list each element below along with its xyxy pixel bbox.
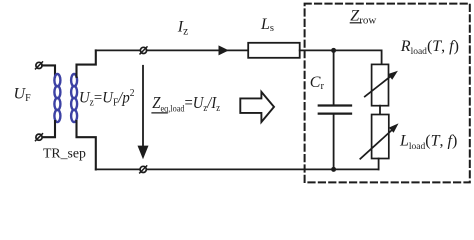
svg-text:Ls: Ls [260,16,274,34]
svg-text:Lload(T, f): Lload(T, f) [399,133,457,152]
wire R_load to L_load [379,106,381,115]
label Uz equation [79,88,135,109]
label Zeq equation [152,94,220,114]
svg-text:Iz: Iz [177,19,188,38]
transformer TR_sep secondary winding [71,74,77,122]
svg-text:Rload(T, f): Rload(T, f) [400,38,459,57]
wire primary bottom [42,121,55,137]
svg-text:Cr: Cr [310,74,325,92]
terminal node primary bottom [36,134,43,141]
wire Ls to R_load [300,50,382,64]
capacitor Cr [319,50,351,169]
wire bottom rail [96,168,379,170]
transformer TR_sep primary winding [54,74,60,122]
boundary Z_row dashed box [305,4,470,183]
wire L_load bottom lead [378,159,380,170]
inductor Ls box [248,43,300,58]
node junction Cr bottom [331,167,336,172]
svg-text:Zeq,load=Uz/Iz: Zeq,load=Uz/Iz [152,94,220,114]
resistor R_load variable [365,64,398,105]
terminal node Uz bottom [140,166,147,173]
svg-text:UF: UF [14,86,32,105]
wire secondary top step to rail [77,50,96,77]
wire top rail left [96,49,141,51]
equivalence hollow arrow [240,92,274,122]
current arrow Iz [219,45,229,55]
svg-text:TR_sep: TR_sep [43,145,86,160]
wire primary top [42,65,55,77]
terminal node primary top [36,62,43,69]
label Z_row [350,7,376,26]
wire secondary bottom step to rail [77,121,96,169]
node junction Cr top [331,48,336,53]
svg-text:Zrow: Zrow [350,7,376,26]
inductor L_load variable [360,115,398,159]
arrow Zeq load direction [138,66,149,159]
svg-text:Uz=UF/p2: Uz=UF/p2 [79,88,135,109]
wire top rail to Ls [147,49,249,51]
terminal node Uz top [140,47,147,54]
